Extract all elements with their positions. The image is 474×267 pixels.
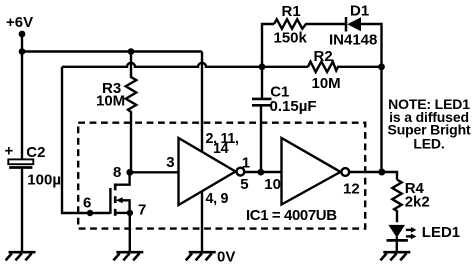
capacitor C2 plate top	[8, 159, 33, 164]
resistor R4	[392, 180, 401, 223]
ground 0V below pins 4,9	[186, 252, 216, 260]
transistor Q1 substrate arrow	[121, 200, 130, 213]
svg-text:14: 14	[213, 141, 229, 157]
inverter IC1b output bubble pin 12	[341, 168, 349, 176]
LED LED1 triangle	[388, 225, 405, 238]
wire R1/D1 branch left riser	[262, 24, 274, 67]
node pin 7 dot	[127, 210, 133, 216]
resistor R3	[126, 52, 137, 173]
capacitor C2 plate bottom	[9, 166, 32, 169]
svg-text:2k2: 2k2	[405, 193, 430, 210]
wire feedback (gate line, with hops)	[62, 63, 308, 67]
ground below C2	[6, 252, 36, 260]
wire +6V vertical down to C2	[21, 34, 23, 159]
wire supply pins 2,11,14 into inverter	[201, 52, 203, 153]
svg-text:IN4148: IN4148	[329, 32, 377, 49]
inverter gate IC1b	[282, 138, 341, 205]
wire source to ground	[129, 213, 131, 252]
svg-text:10M: 10M	[312, 75, 341, 92]
svg-text:150k: 150k	[274, 30, 308, 47]
svg-text:3: 3	[166, 154, 174, 171]
resistor R1	[274, 19, 345, 28]
wire pin 8 to inverter input pin 3	[130, 171, 179, 173]
svg-text:0.15µF: 0.15µF	[270, 98, 317, 115]
svg-text:10: 10	[264, 176, 281, 193]
svg-text:5: 5	[240, 176, 248, 193]
capacitor C1 top lead	[261, 67, 263, 99]
svg-text:100µ: 100µ	[27, 172, 61, 189]
transistor Q1 source stub pin 7	[115, 212, 129, 214]
transistor Q1 gate bar	[109, 188, 111, 214]
svg-text:12: 12	[343, 180, 360, 197]
diode D1 triangle	[347, 17, 361, 31]
node pin 6 dot	[87, 210, 93, 216]
wire +6V rail to pins 2,11,14 column	[22, 50, 202, 52]
wire D1 to right column	[361, 24, 382, 172]
svg-text:+: +	[5, 143, 14, 160]
node junction C1 bottom	[257, 169, 264, 176]
resistor R2	[308, 62, 382, 72]
svg-text:7: 7	[138, 202, 146, 219]
svg-text:1: 1	[242, 154, 250, 171]
svg-text:R2: R2	[314, 48, 333, 65]
svg-text:LED.: LED.	[413, 135, 444, 151]
wire pins 4,9 to ground	[201, 191, 203, 252]
transistor Q1 channel segments	[114, 184, 117, 191]
svg-text:LED1: LED1	[422, 224, 460, 241]
wire pin 12 output	[349, 172, 397, 180]
capacitor C1 bottom lead	[260, 105, 262, 172]
diode D1 cathode bar	[345, 17, 348, 32]
node junction R3 top	[128, 48, 135, 55]
wire C2 to ground	[21, 169, 23, 253]
ground below LED1	[380, 252, 410, 260]
LED LED1 light arrows	[406, 229, 412, 231]
+6V supply terminal dot	[19, 31, 26, 38]
svg-text:+6V: +6V	[6, 14, 33, 31]
svg-text:8: 8	[113, 164, 121, 181]
wire LED to ground	[396, 242, 398, 253]
wire pin 1 to pin 10	[244, 171, 281, 173]
svg-text:4, 9: 4, 9	[206, 191, 229, 207]
dashed IC boundary box	[78, 123, 365, 229]
svg-text:10M: 10M	[96, 93, 125, 110]
ground below Q1 source	[113, 252, 143, 260]
LED LED1 cathode bar	[387, 239, 408, 242]
svg-text:0V: 0V	[217, 249, 235, 266]
node junction R2 right	[378, 63, 385, 70]
wire left vertical to gate pin 6	[62, 67, 110, 213]
svg-text:IC1 = 4007UB: IC1 = 4007UB	[246, 207, 337, 224]
transistor Q1 drain stub pin 8	[115, 172, 129, 184]
node junction C1 top / R1 branch	[259, 63, 266, 70]
inverter gate IC1a	[179, 138, 236, 205]
svg-text:C2: C2	[26, 144, 45, 161]
node junction output / right column	[378, 169, 385, 176]
node junction on +6V rail	[19, 48, 26, 55]
node pin 8 junction	[126, 169, 133, 176]
svg-text:R1: R1	[282, 3, 301, 20]
capacitor C1 plates	[252, 98, 272, 101]
svg-text:D1: D1	[350, 3, 369, 20]
inverter IC1a output bubble pin 1	[237, 168, 245, 176]
svg-text:6: 6	[83, 195, 91, 212]
